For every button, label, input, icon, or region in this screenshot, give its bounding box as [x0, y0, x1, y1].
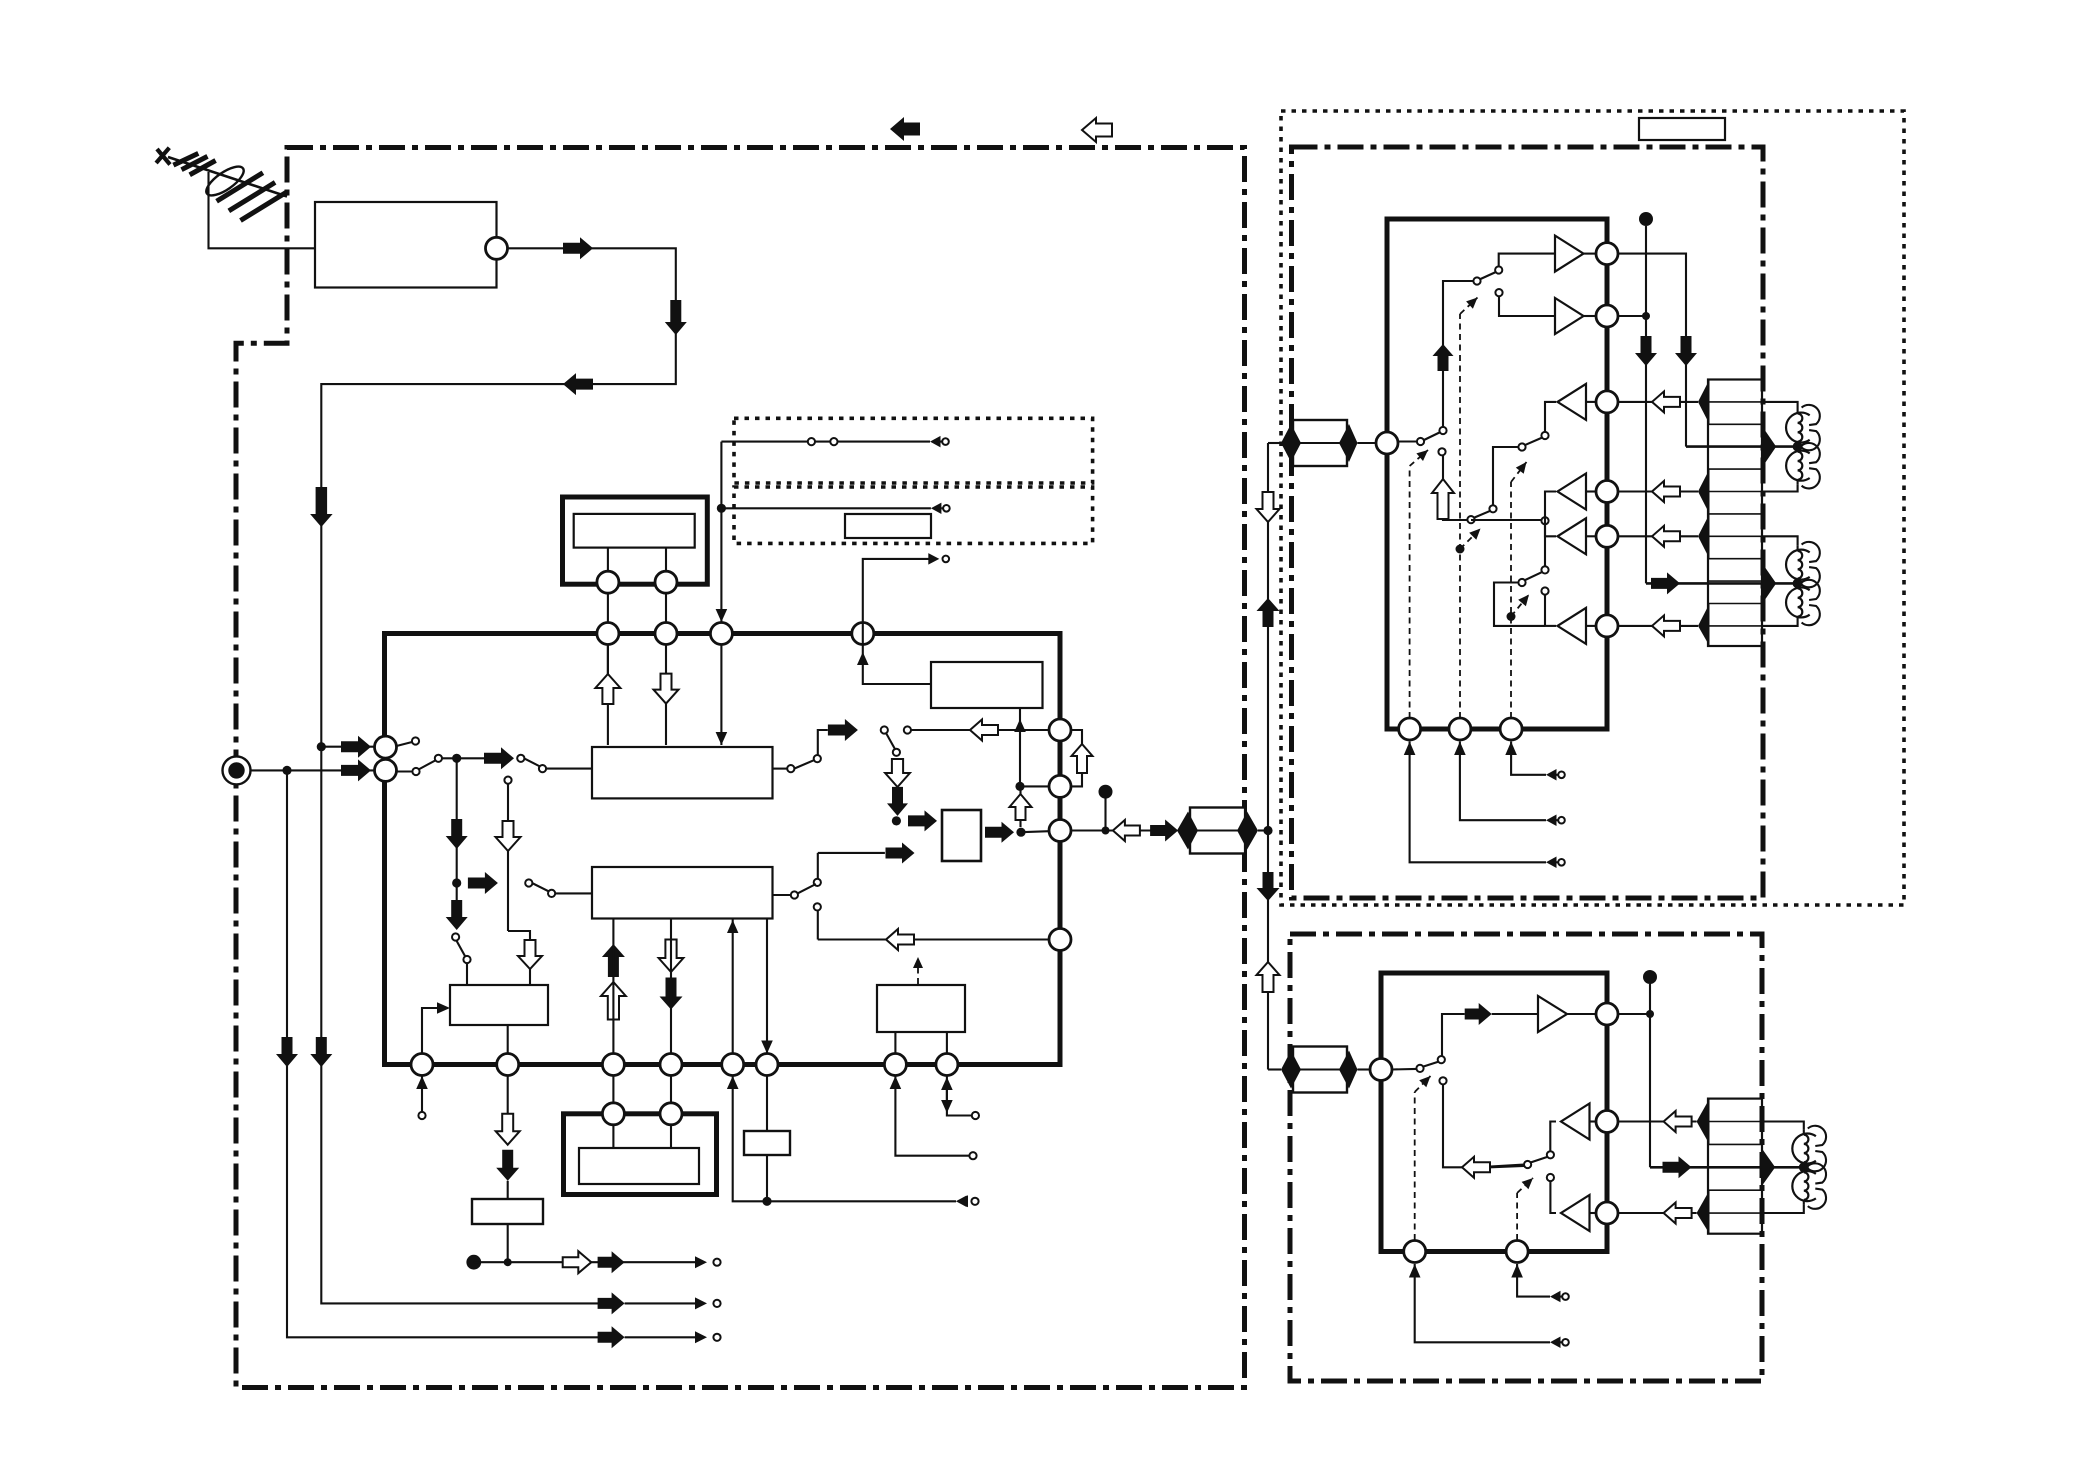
speaker out amp L1	[1558, 384, 1587, 420]
arrowhead into IC pin4	[716, 609, 728, 622]
black down arrow on tuner loop	[665, 300, 687, 335]
mixer block	[942, 810, 981, 861]
wire from VIF out to video switch	[773, 768, 788, 770]
sub speaker amp L2	[1561, 1195, 1590, 1231]
amp input switch network	[1398, 254, 1556, 524]
dashed sub control 1	[1414, 1092, 1416, 1240]
white up arrow to sub amp	[1257, 962, 1280, 992]
black right arrow center tap 2	[1651, 572, 1680, 594]
IC bottom pin 2	[497, 1054, 519, 1076]
wire tuner IF to IC input	[321, 746, 375, 748]
wire pin B8 to terminal	[947, 1076, 971, 1116]
IC left pin IF in	[375, 736, 397, 758]
junction mixer input	[892, 816, 901, 825]
speaker coil 1	[1762, 402, 1798, 409]
VIF block	[592, 747, 773, 798]
SIF block	[592, 867, 773, 919]
sub amp pin right 1	[1596, 1003, 1618, 1025]
wire RCA to IC input	[251, 769, 376, 771]
black down arrow on audio out line	[276, 1037, 298, 1067]
wire connector to amp IC	[1358, 442, 1376, 444]
sub speaker amp dash-dot box	[1290, 934, 1762, 1381]
AGC select switch	[452, 933, 459, 940]
reference block top right	[931, 662, 1043, 708]
sub ladder diamond row1	[1697, 1099, 1710, 1145]
wire service line 1	[721, 441, 930, 443]
wire IF path	[442, 757, 484, 759]
wire SIF out to mixer input 2	[818, 852, 885, 854]
junction sub speaker	[1799, 1162, 1809, 1172]
sub amp pin right 2	[1596, 1111, 1618, 1133]
speaker coil 2	[1786, 451, 1810, 481]
speaker coil 4	[1786, 587, 1810, 617]
wire sub pin2 to terminal	[1511, 1264, 1523, 1278]
sub amp pin right 3	[1596, 1202, 1618, 1224]
wire reference to pin T4	[863, 645, 931, 685]
wire pin B5 to AFC terminal	[733, 1076, 956, 1202]
switch before VIF block	[517, 755, 524, 762]
dashed control line 2	[1459, 314, 1461, 718]
amp pin right 5	[1596, 525, 1618, 547]
power rail vertical	[1645, 226, 1647, 583]
sub speaker coil 2	[1792, 1171, 1816, 1201]
black down arrow into mixer	[887, 787, 908, 816]
black down arrow to sub amp	[1257, 872, 1280, 901]
white left arrow on top boundary	[1082, 118, 1112, 142]
sub drive wire row2	[1618, 1212, 1697, 1214]
wire AGC out to pin	[507, 1025, 509, 1054]
main TV chassis dash-dot boundary	[236, 148, 1245, 1388]
ladder feed diamond row1	[1698, 380, 1710, 425]
black down arrow SIF col2	[660, 978, 683, 1010]
black right arrow after tuner	[563, 237, 593, 259]
sub amp buffer	[1538, 996, 1567, 1032]
speaker drive wire row1	[1618, 401, 1698, 403]
amp mid switch to L3	[1471, 517, 1556, 536]
IC right pin 4	[1049, 929, 1071, 951]
junction tuner IF node	[317, 742, 326, 751]
junction audio splitter	[1263, 826, 1272, 835]
white up arrow SIF-xtal	[601, 982, 626, 1020]
audio bus connector	[1190, 808, 1245, 854]
black right arrow sub center tap	[1663, 1156, 1692, 1178]
black right arrow output row 2	[598, 1292, 625, 1314]
black down arrow pin B2	[496, 1150, 519, 1181]
dashed control line 1	[1409, 466, 1411, 718]
wire sub pin1 to terminal	[1409, 1264, 1421, 1278]
ladder feed diamond row3	[1698, 514, 1710, 559]
speaker out amp L3	[1558, 518, 1587, 554]
wire pin R4 row	[818, 938, 1049, 940]
xtal pin 2	[660, 1103, 682, 1125]
sub amp bottom pin 2	[1506, 1241, 1528, 1263]
white down arrow to main amp	[1257, 492, 1280, 522]
black left arrow on tuner loop return	[563, 373, 593, 395]
junction SIF node	[452, 878, 461, 887]
wire pin2 to power rail	[1618, 315, 1646, 317]
sub power rail	[1649, 984, 1651, 1167]
video output node dot	[466, 1255, 481, 1270]
wire VIF detector out up to terminal	[863, 559, 931, 645]
white down arrow pin T2 to VIF	[665, 645, 667, 746]
black right arrow mixer output	[985, 822, 1014, 843]
loop pin R1 to pin R2 outside	[1071, 730, 1082, 786]
black right arrow video out	[591, 1261, 695, 1263]
wire connector to splitter node	[1258, 829, 1268, 831]
amp pin right 3	[1596, 391, 1618, 413]
wire xtal column 1	[612, 919, 614, 1054]
IC bottom pin 3	[602, 1054, 624, 1076]
main amp IC thick box	[1387, 219, 1607, 729]
black left arrow on top boundary	[890, 117, 920, 141]
up-down arrow pin B8	[941, 1077, 953, 1090]
wire amp pin3 to terminal	[1505, 742, 1517, 756]
switch contacts video select	[904, 726, 911, 733]
IC top pin 4	[852, 623, 874, 645]
sub ladder diamond row2	[1697, 1190, 1710, 1234]
wire pin R1 left with white left arrow	[911, 729, 1049, 731]
wire buffer1 out to speaker feed	[1618, 254, 1686, 447]
main IC (IF/video/audio processor)	[385, 634, 1061, 1065]
xtal inner box	[579, 1148, 699, 1184]
junction service line 2	[717, 504, 726, 513]
amp bottom pin 1	[1399, 718, 1421, 740]
IC top pin 3	[710, 623, 732, 645]
junction pin R3 node	[1102, 827, 1110, 835]
wire memory to IC pins	[607, 593, 609, 622]
amp pin right 6	[1596, 615, 1618, 637]
center tap diamond right 1	[1762, 426, 1776, 468]
memory block inner box	[574, 514, 695, 548]
wire AFT to bottom pin8	[946, 1032, 948, 1054]
wire amp pin1 to terminal	[1404, 742, 1416, 756]
wire amp pin2 to terminal	[1454, 742, 1466, 756]
junction monitor node	[1015, 782, 1024, 791]
IC bottom pin 6	[756, 1054, 778, 1076]
wire sub buffer out	[1618, 1013, 1651, 1015]
sub drive wire row1	[1618, 1120, 1697, 1122]
wire pin R3 to connector	[1071, 829, 1177, 831]
white up arrow pin T1 to VIF	[607, 645, 609, 685]
junction mixer output	[1016, 828, 1025, 837]
tuner output pin	[486, 237, 508, 259]
IC top pin 2	[655, 623, 677, 645]
antenna	[156, 148, 287, 221]
sub amp input switch	[1392, 1014, 1465, 1167]
switch before SIF block	[525, 879, 532, 886]
white down arrow SIF col2	[659, 940, 684, 973]
junction power to pin2	[1642, 312, 1650, 320]
junction speaker pair 2	[1793, 578, 1803, 588]
terminal output row 3	[695, 1331, 707, 1343]
white up arrow on R1-R2 loop	[1072, 744, 1093, 773]
wire R4 row to SIF switch	[817, 910, 819, 939]
amp bottom pin 3	[1500, 718, 1522, 740]
center tap row 2 thick wire	[1646, 582, 1798, 585]
main amp input connector	[1293, 420, 1347, 466]
wire into main amp connector	[1268, 442, 1281, 444]
black up arrow amp path	[1433, 344, 1454, 371]
wire service line 2	[721, 507, 931, 509]
center tap diamond right 2	[1762, 563, 1776, 604]
sub amp input pin	[1370, 1059, 1392, 1081]
dashed sub control 2	[1516, 1193, 1518, 1240]
sub speaker coil 1	[1762, 1122, 1804, 1130]
sub amp bottom pin 1	[1404, 1241, 1426, 1263]
terminal service line 2	[931, 503, 942, 514]
IC right pin 1	[1049, 719, 1071, 741]
black right arrow sub amp in	[1465, 1003, 1492, 1025]
wire into sub amp connector	[1268, 1068, 1281, 1070]
terminal video test point	[928, 553, 939, 565]
black right arrow IF path	[484, 747, 514, 769]
black right arrow mixer input 2	[886, 843, 915, 864]
headphone buffer 2	[1555, 298, 1584, 334]
wire det column	[766, 919, 768, 1054]
black right arrow into IF input	[341, 736, 371, 758]
wire xtal column 2	[670, 919, 672, 1054]
black down arrow on power rail	[1635, 336, 1657, 366]
speaker terminal ladder	[1708, 380, 1762, 647]
sub amp feedback switch	[1490, 1122, 1556, 1214]
speaker drive wire row4	[1618, 625, 1698, 627]
wire xtal pins to IC	[612, 1076, 614, 1103]
black down arrow on video out line	[310, 1037, 332, 1067]
memory block thick box	[563, 497, 708, 584]
dashed arrow AFT to R4 row	[917, 966, 919, 984]
crystal oscillator thick box	[564, 1114, 717, 1195]
black right arrow mixer input 1	[908, 810, 937, 831]
white left arrow audio bus	[1113, 820, 1140, 841]
headphone buffer 1	[1555, 236, 1584, 272]
black up arrow SIF-xtal	[602, 944, 625, 977]
ladder feed diamond row4	[1698, 604, 1710, 647]
IC bottom pin 4	[660, 1054, 682, 1076]
sub amp input connector	[1293, 1047, 1347, 1093]
AFT block	[877, 985, 965, 1032]
amp bottom pin 2	[1449, 718, 1471, 740]
amp pin right 2	[1596, 305, 1618, 327]
white up arrow mixer monitor	[1019, 786, 1021, 827]
white down arrow pin B2	[507, 1076, 509, 1115]
wire pin B7 to terminal	[895, 1076, 969, 1156]
service connector dotted box upper	[734, 418, 1093, 483]
wire AGC branch vertical	[456, 758, 458, 901]
wire pin B1 to test point	[421, 1076, 423, 1113]
black down arrow on IF feed line	[310, 487, 333, 527]
sub speaker ladder	[1708, 1099, 1762, 1234]
wire audio line from RCA node	[287, 770, 599, 1337]
sub center tap wire	[1650, 1166, 1804, 1169]
junction speaker pair 1	[1793, 442, 1803, 452]
speaker out amp L4	[1558, 608, 1587, 644]
black right arrow output row 3	[598, 1326, 625, 1348]
sub speaker amp L1	[1561, 1104, 1590, 1140]
speaker drive wire row3	[1618, 535, 1698, 537]
memory pin 1	[607, 548, 609, 571]
wire xtal internal	[612, 1125, 614, 1148]
IC top pin 1	[597, 623, 619, 645]
white down arrow into mixer	[885, 759, 910, 787]
wire connector to sub amp IC	[1358, 1068, 1371, 1070]
tuner block	[315, 202, 497, 288]
arrow from bottom pin1 into AGC	[422, 1008, 443, 1054]
black down arrow AGC branch	[446, 819, 468, 849]
AGC block	[450, 985, 548, 1025]
white up arrow amp path	[1432, 479, 1454, 519]
wire pin T3 into VIF	[720, 645, 722, 746]
black down arrow to AGC	[446, 900, 468, 930]
white left arrow sub feedback	[1462, 1157, 1490, 1178]
black right arrow SIF path	[468, 872, 498, 894]
black right arrow video to mixer node	[828, 719, 858, 741]
contact pair on service line 1	[808, 438, 815, 445]
junction sub power node	[1646, 1010, 1654, 1018]
black up arrow on splitter	[1257, 598, 1280, 627]
IC right pin 2	[1049, 775, 1071, 797]
sub center diamond	[1762, 1149, 1775, 1186]
amp low switch network	[1494, 492, 1556, 626]
wire service bus vertical	[720, 442, 722, 622]
wire tuner output loop	[321, 248, 676, 746]
power dot above audio node	[1099, 785, 1113, 799]
terminal video out	[695, 1256, 707, 1268]
resistor R1	[472, 1199, 543, 1224]
terminal output row 2	[695, 1297, 707, 1309]
black right arrow audio bus	[1150, 820, 1178, 842]
antenna feed wire	[209, 172, 316, 248]
sub amp power dot	[1643, 970, 1657, 984]
terminal service line 1	[930, 436, 941, 448]
wire composite video line	[321, 747, 599, 1304]
IC bottom pin 8	[936, 1054, 958, 1076]
white left arrow on R4 row	[886, 929, 914, 950]
speaker label box	[1639, 118, 1725, 140]
audio splitter vertical wire	[1267, 443, 1269, 831]
service connector dotted box lower	[734, 487, 1093, 543]
white right arrow video out	[563, 1251, 592, 1273]
external AV input jack	[223, 756, 251, 784]
input select switch	[397, 742, 415, 747]
IC bottom pin 5	[722, 1054, 744, 1076]
speaker out amp L2	[1558, 474, 1587, 510]
wire AFT to bottom pin7	[894, 1032, 896, 1054]
wire SIF fb column	[732, 919, 734, 1054]
wire monitor node to reference block	[1019, 708, 1021, 786]
junction on RCA wire	[282, 766, 291, 775]
xtal pin 1	[602, 1103, 624, 1125]
amp power dot	[1639, 212, 1653, 226]
amp input pin	[1376, 432, 1398, 454]
label box inside service box	[845, 514, 931, 538]
junction IF path	[452, 754, 461, 763]
speaker coil 3	[1762, 536, 1798, 546]
amp pin right 4	[1596, 481, 1618, 503]
IC left pin AV in	[375, 759, 397, 781]
junction AFC line	[762, 1197, 771, 1206]
speaker drive wire row2	[1618, 490, 1698, 492]
dashed control line 3	[1510, 482, 1512, 718]
IC bottom pin 1	[411, 1054, 433, 1076]
center tap row 1 thick wire	[1686, 445, 1798, 448]
resistor R2	[766, 1076, 768, 1132]
sub amp IC thick box	[1381, 973, 1607, 1252]
IC bottom pin 7	[884, 1054, 906, 1076]
black down arrow speaker feed	[1675, 336, 1697, 366]
IC right pin 3 audio out	[1049, 820, 1071, 842]
memory pin 2	[665, 548, 667, 571]
terminal AFC out	[956, 1196, 967, 1208]
ladder feed diamond row2	[1698, 469, 1710, 514]
white down arrow column B2	[518, 940, 542, 969]
main audio amp dash-dot box	[1292, 147, 1764, 898]
black right arrow into AV input	[341, 759, 371, 781]
amp pin right 1	[1596, 243, 1618, 265]
takeover point contact column	[504, 777, 511, 784]
junction video output	[504, 1258, 512, 1266]
speaker system dotted box	[1281, 111, 1904, 905]
wire R1 to output node	[507, 1224, 509, 1262]
white down arrow column B1	[496, 821, 521, 851]
